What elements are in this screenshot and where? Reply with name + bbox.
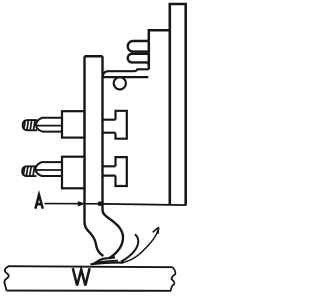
central bar right edge + blade right curve (103, 56, 124, 258)
bolt 1 stem right (103, 120, 116, 133)
central bar top (85, 55, 103, 58)
clamp finger upper (128, 41, 150, 52)
work plate left break (4, 266, 8, 290)
work plate bottom line (6, 290, 171, 292)
blade foot inner line (98, 260, 119, 262)
leader arrowhead (78, 201, 86, 206)
bolt 2 shank midline (36, 169, 63, 171)
bolt 1 shank (36, 118, 62, 132)
bolt 1 thread hatching (24, 121, 35, 131)
label A (35, 195, 42, 209)
bolt 2 block (62, 157, 85, 189)
bolt 1 shank midline (36, 125, 62, 127)
bolt 1 threaded tip (23, 120, 37, 130)
work plate right break (171, 267, 175, 291)
leader line A (45, 203, 80, 205)
bolt 2 thread hatching (23, 167, 34, 176)
pivot circle (114, 77, 126, 89)
bracket arm bottom edge (103, 76, 149, 78)
bolt 2 threaded tip (22, 166, 36, 176)
bolt 1 T-head (116, 111, 127, 139)
tall vertical plate (right) (170, 4, 186, 205)
bolt 2 stem right (103, 166, 116, 175)
medium step bar top (149, 30, 170, 69)
motion arrow curve (120, 227, 159, 262)
work plate top line (8, 266, 172, 267)
bolt 2 T-head (116, 157, 127, 186)
clamp finger lower (128, 54, 150, 65)
bolt 1 block (62, 111, 85, 137)
bolt 2 shank (36, 162, 63, 176)
label W (73, 268, 90, 285)
attachment dot (98, 201, 103, 206)
leader line extension (100, 204, 186, 205)
bracket arm top edge (103, 69, 149, 77)
leader line through bar (86, 203, 98, 205)
blade curled tip (121, 235, 138, 262)
central bar left edge + blade left curve (85, 56, 104, 256)
blade foot toe top (94, 257, 115, 263)
motion arrowhead (153, 227, 159, 234)
blade foot sole (91, 263, 124, 265)
